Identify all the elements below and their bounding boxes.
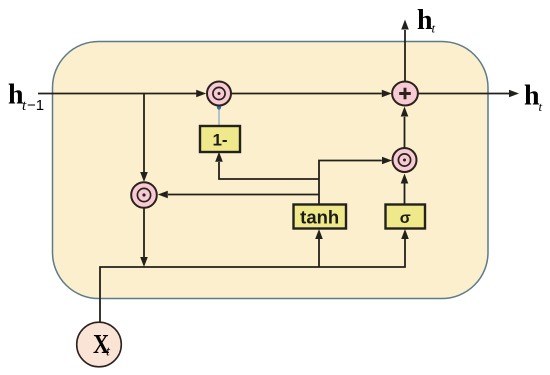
wire M3 to add node bbox=[404, 117, 406, 148]
wire tanh branch to 1- box bbox=[219, 162, 319, 179]
input node x(t) bbox=[77, 322, 122, 367]
wire M2 down to bottom bus bbox=[143, 208, 145, 257]
add node bbox=[392, 82, 418, 106]
arrowhead into M3 from left bbox=[382, 157, 392, 165]
arrowhead into 1- box bbox=[215, 152, 223, 162]
blue connector dot bbox=[217, 105, 221, 109]
wire M1 to add node bbox=[232, 93, 382, 95]
wire x(t) bottom bus bbox=[100, 239, 405, 322]
label h(t) right bbox=[524, 81, 543, 115]
wire branch down to left multiply node M2 bbox=[143, 94, 145, 173]
arrowhead into tanh box bbox=[315, 229, 323, 239]
wire tanh output to right multiply node M3 bbox=[319, 161, 382, 206]
wire bus branch to tanh bbox=[318, 239, 320, 267]
svg-text:σ: σ bbox=[400, 210, 411, 227]
arrowhead top output h(t) bbox=[401, 20, 409, 30]
multiply node M3 bbox=[393, 148, 417, 172]
box 1- bbox=[200, 126, 240, 152]
label h(t-1) bbox=[8, 80, 44, 115]
wire sigma to M3 bbox=[404, 184, 406, 205]
wire add node to top output bbox=[404, 30, 406, 81]
arrowhead into add node from left bbox=[382, 90, 392, 98]
arrowhead M3 into add node bbox=[401, 107, 409, 117]
svg-text:−1: −1 bbox=[27, 97, 44, 114]
box tanh bbox=[294, 205, 347, 229]
GRU cell body bbox=[53, 42, 489, 299]
arrowhead into M2 from top bbox=[140, 172, 148, 182]
svg-text:t: t bbox=[539, 99, 543, 114]
arrowhead into sigma box bbox=[401, 229, 409, 239]
wire h(t-1) input to multiply node M1 bbox=[38, 93, 197, 95]
svg-text:tanh: tanh bbox=[300, 207, 339, 228]
arrowhead into M2 from right bbox=[158, 191, 168, 199]
wire add node to right output bbox=[418, 93, 509, 95]
multiply node M2 bbox=[131, 182, 157, 208]
wire tanh branch to M2 bbox=[168, 194, 319, 196]
arrowhead into M1 bbox=[196, 90, 206, 98]
arrowhead right output h(t) bbox=[509, 90, 519, 98]
svg-text:1-: 1- bbox=[212, 131, 227, 150]
label h(t) top bbox=[417, 5, 436, 36]
svg-text:t: t bbox=[432, 21, 436, 36]
box sigma bbox=[386, 205, 426, 229]
blue connector 1- box to M1 bbox=[218, 108, 220, 127]
arrowhead sigma into M3 bottom bbox=[401, 174, 409, 184]
arrowhead M2 onto bus bbox=[140, 257, 148, 267]
multiply node M1 bbox=[207, 82, 231, 106]
